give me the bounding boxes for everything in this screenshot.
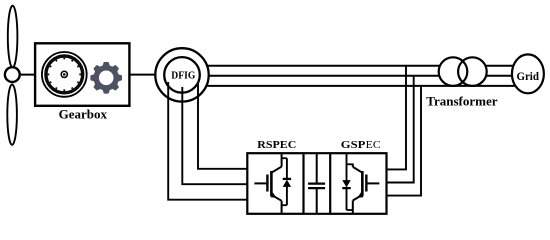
jog from diode bottom — [282, 204, 287, 206]
wind turbine hub — [5, 67, 20, 82]
emitter stub — [281, 201, 283, 213]
jog from diode bottom — [347, 209, 353, 211]
wind turbine blade bottom — [7, 84, 17, 144]
rotor wire 1 (left) — [168, 82, 248, 200]
emitter stub — [352, 201, 354, 214]
gate bar — [266, 175, 268, 192]
stator 3-phase line 3 — [182, 85, 520, 87]
diode lead bottom — [286, 186, 288, 205]
gearbox wheel — [42, 52, 87, 97]
wind turbine blade top — [8, 6, 18, 68]
diode triangle — [283, 180, 291, 187]
emitter arrow — [270, 193, 276, 198]
diode anode bar — [342, 187, 350, 189]
collector stub — [281, 154, 283, 167]
grid circle — [512, 54, 544, 93]
gate lead — [254, 182, 266, 184]
gate bar — [365, 175, 367, 192]
svg-text:Grid: Grid — [516, 69, 539, 83]
gearbox gear icon — [91, 63, 121, 93]
DC link top rail — [304, 152, 331, 154]
transformer winding circles — [439, 57, 487, 86]
diode lead top — [286, 158, 288, 178]
DFIG generator outer circle — [155, 48, 208, 101]
RSPEC converter box — [247, 153, 303, 214]
DFIG generator inner circle — [164, 57, 200, 93]
DC link bottom rail — [304, 213, 331, 215]
wire gearbox to DFIG — [129, 74, 182, 76]
GSPEC converter box — [330, 153, 386, 214]
jog to diode top — [282, 157, 287, 159]
DC link capacitor — [308, 153, 325, 214]
svg-text:Transformer: Transformer — [426, 94, 497, 109]
svg-text:RSPEC: RSPEC — [257, 139, 296, 151]
gearbox box — [35, 43, 129, 106]
jog to diode lead — [347, 163, 353, 165]
emitter diagonal — [353, 195, 363, 201]
collector stub — [352, 164, 354, 167]
svg-text:DFIG: DFIG — [171, 70, 195, 82]
emitter diagonal — [271, 195, 281, 201]
body bar — [270, 171, 273, 196]
diode cathode bar — [283, 178, 291, 180]
stator 3-phase line 2 — [182, 75, 520, 77]
wire GSPEC output 1 riser to line 1 — [387, 66, 407, 170]
diode lead top — [346, 154, 348, 180]
wire hub to gearbox — [12, 74, 36, 76]
wire GSPEC output 2 riser to line 2 — [387, 76, 414, 183]
collector diagonal — [353, 167, 362, 172]
wire GSPEC output 3 riser to line 3 — [387, 86, 422, 196]
svg-text:GSP: GSP — [341, 139, 366, 151]
RSPEC IGBT — [254, 154, 291, 213]
svg-text:EC: EC — [366, 139, 381, 151]
GSPEC IGBT — [342, 154, 379, 213]
emitter arrow — [357, 193, 363, 198]
diode lead bottom — [346, 189, 348, 210]
diode triangle (pointing down) — [342, 180, 350, 187]
gate lead — [367, 182, 379, 184]
svg-text:Gearbox: Gearbox — [59, 107, 108, 122]
body bar — [361, 171, 364, 196]
collector diagonal — [272, 167, 282, 173]
stator 3-phase line 1 — [182, 65, 520, 67]
rotor wire 2 (middle) — [182, 87, 248, 184]
rotor wire 3 (right) — [198, 82, 248, 169]
